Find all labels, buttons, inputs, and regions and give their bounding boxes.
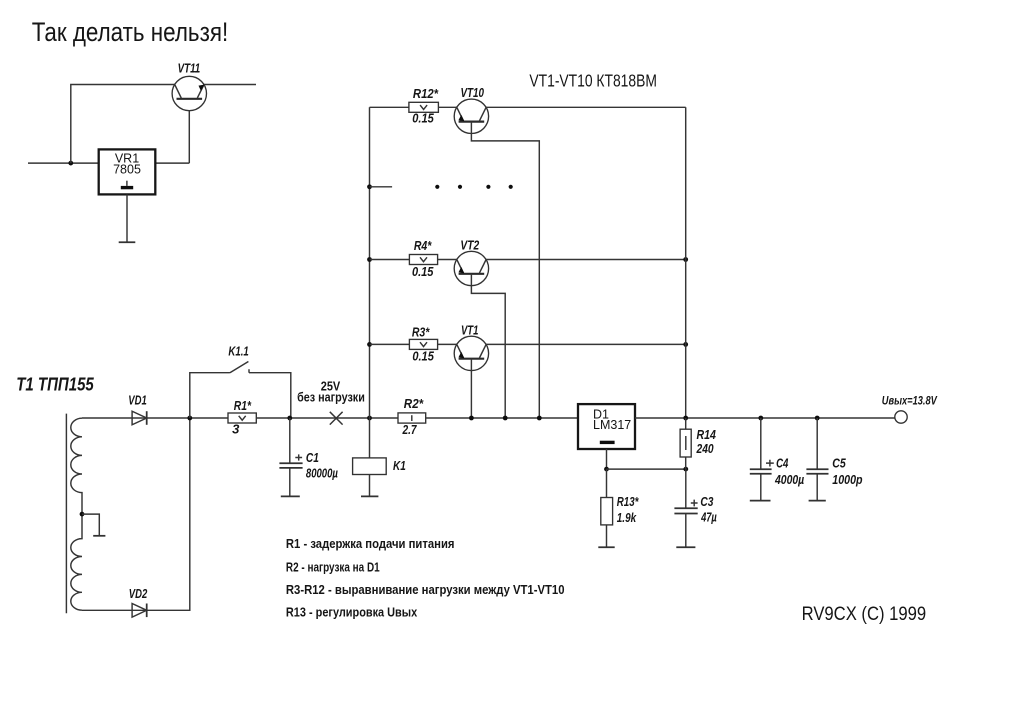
transformer T1 winding — [71, 418, 82, 610]
wire center tap to ground — [82, 514, 99, 536]
svg-text:VT11: VT11 — [178, 61, 201, 76]
svg-text:R14: R14 — [697, 427, 717, 442]
node VT2 base at bus — [503, 416, 508, 421]
transistor VT1 — [454, 323, 488, 371]
ground R13 — [598, 546, 614, 548]
resistor R4 — [409, 238, 437, 279]
wire VT11 emitter output — [204, 84, 256, 86]
ground center tap — [93, 535, 105, 537]
transistor VT10 — [454, 85, 488, 134]
svg-text:VT1: VT1 — [461, 323, 479, 338]
capacitor C3 — [674, 469, 717, 547]
ground C5 — [809, 500, 826, 502]
transformer T1 label — [16, 374, 94, 394]
ground C1 — [281, 495, 300, 497]
diode VD1 — [128, 394, 147, 425]
svg-text:K1: K1 — [393, 458, 406, 473]
svg-text:240: 240 — [696, 441, 714, 456]
svg-text:R1 - задержка подачи питания: R1 - задержка подачи питания — [286, 537, 455, 551]
regulator VR1 — [99, 149, 156, 194]
capacitor C5 — [806, 418, 862, 501]
wire secondary top to R1 — [82, 417, 228, 419]
svg-text:Так делать нельзя!: Так делать нельзя! — [32, 17, 229, 47]
label VT1-VT10 KT818BM — [529, 70, 657, 90]
node C4 tap — [758, 416, 763, 421]
ground K1 — [361, 495, 378, 497]
svg-text:VT1-VT10 КТ818ВМ: VT1-VT10 КТ818ВМ — [529, 70, 657, 90]
svg-text:VD1: VD1 — [128, 394, 147, 408]
ellipsis dots VT3-VT9 — [435, 185, 513, 189]
svg-text:4000µ: 4000µ — [774, 472, 804, 487]
wire VT10 base to main bus — [471, 122, 539, 418]
svg-text:R4*: R4* — [414, 238, 432, 253]
wire R4 to VT2 — [438, 259, 457, 261]
node transformer center tap — [80, 512, 85, 517]
svg-text:R13 - регулировка Uвых: R13 - регулировка Uвых — [286, 606, 417, 620]
wire ellipsis stub — [370, 186, 393, 188]
wire VT10 collector to right rail — [486, 106, 686, 108]
node VT1 row left — [367, 342, 372, 347]
test point X mark — [330, 412, 343, 425]
transistor VT11 — [172, 61, 206, 111]
wire VT2 base to main bus — [471, 274, 505, 418]
resistor R1 — [228, 398, 256, 437]
resistor R14 — [680, 418, 716, 469]
wire input to VR1 — [28, 162, 99, 164]
capacitor C4 — [750, 418, 805, 501]
svg-text:K1.1: K1.1 — [228, 343, 248, 358]
wire VT1 base to main bus — [470, 359, 472, 418]
svg-text:C1: C1 — [306, 450, 319, 465]
svg-text:C4: C4 — [776, 455, 789, 470]
wire VT2 collector to right rail — [486, 259, 686, 261]
wire R1 to R2 — [256, 417, 398, 419]
node VT1 base at bus — [469, 416, 474, 421]
ground C3 — [676, 546, 695, 548]
svg-text:R12*: R12* — [413, 86, 439, 101]
output terminal — [895, 411, 907, 423]
svg-text:R3-R12 - выравнивание нагрузки: R3-R12 - выравнивание нагрузки между VT1… — [286, 583, 565, 597]
diode VD2 — [129, 587, 148, 617]
wire VT1 collector to right rail — [486, 343, 686, 345]
resistor R2 — [398, 396, 426, 437]
wire R12 to VT10 — [438, 106, 456, 108]
notes list — [286, 537, 565, 619]
ground C4 — [750, 500, 771, 502]
switch contact K1.1 — [190, 343, 291, 418]
wire main bus R2 to D1 — [426, 417, 578, 419]
svg-text:0.15: 0.15 — [412, 349, 434, 364]
svg-text:80000µ: 80000µ — [306, 466, 338, 481]
svg-text:47µ: 47µ — [700, 510, 717, 525]
svg-text:R1*: R1* — [234, 398, 252, 413]
node VT1 row right rail — [683, 342, 688, 347]
svg-text:3: 3 — [232, 421, 240, 436]
wire adj row — [607, 468, 686, 470]
title "Так делать нельзя!" — [32, 17, 229, 47]
wire secondary bottom through VD2 — [82, 418, 190, 610]
wire VT2 row to R4 — [370, 259, 410, 261]
svg-text:LM317: LM317 — [593, 418, 631, 432]
wire VT1 row to R3 — [370, 343, 410, 345]
svg-text:Uвых=13.8V: Uвых=13.8V — [882, 396, 938, 408]
node left rail bottom — [367, 416, 372, 421]
node VT2 row left — [367, 257, 372, 262]
node junction input — [68, 161, 73, 166]
signature RV9CX — [802, 604, 927, 625]
relay coil K1 — [353, 418, 406, 496]
label Uvyh — [882, 396, 938, 408]
svg-text:C3: C3 — [700, 494, 714, 509]
svg-text:без нагрузки: без нагрузки — [297, 389, 365, 404]
svg-text:R13*: R13* — [617, 494, 639, 509]
label 25V без нагрузки — [297, 378, 365, 404]
wire right rail — [685, 107, 687, 418]
svg-text:1.9k: 1.9k — [617, 510, 637, 525]
svg-text:RV9CX (C) 1999: RV9CX (C) 1999 — [802, 604, 927, 625]
wire top row to R12 — [370, 106, 409, 108]
node after R1 — [287, 416, 292, 421]
wire VR1 out to VT11 base — [155, 99, 189, 163]
wire R3 to VT1 — [438, 343, 457, 345]
resistor R3 — [409, 324, 437, 363]
wire up from junction to VT11 collector — [71, 85, 175, 164]
resistor R13 — [601, 469, 639, 547]
node C5 tap — [815, 416, 820, 421]
svg-text:VT2: VT2 — [460, 238, 479, 253]
svg-text:R2*: R2* — [404, 396, 424, 411]
node R14 bottom junction — [683, 467, 688, 472]
wire D1 out to output — [635, 417, 895, 419]
svg-text:C5: C5 — [832, 455, 846, 470]
svg-text:0.15: 0.15 — [412, 264, 434, 279]
node adj junction — [604, 467, 609, 472]
node rectifier junction — [187, 416, 192, 421]
svg-text:0.15: 0.15 — [412, 110, 434, 125]
svg-text:T1 ТПП155: T1 ТПП155 — [16, 374, 94, 394]
svg-text:1000p: 1000p — [832, 472, 862, 487]
svg-text:VT10: VT10 — [460, 85, 484, 100]
svg-text:R3*: R3* — [412, 324, 430, 339]
resistor R12 — [409, 86, 439, 125]
regulator D1 LM317 — [578, 404, 635, 449]
transformer T1 core — [65, 414, 67, 614]
wire VR1 ground lead — [126, 194, 128, 242]
node R14 top — [683, 416, 688, 421]
svg-text:2.7: 2.7 — [402, 422, 417, 437]
node VT2 row right rail — [683, 257, 688, 262]
transistor VT2 — [454, 238, 488, 286]
svg-text:7805: 7805 — [113, 162, 141, 176]
node VT10 base at bus — [537, 416, 542, 421]
node ellipsis row on left rail — [367, 184, 372, 189]
capacitor C1 — [279, 418, 338, 496]
wire D1 adj lead — [606, 449, 608, 469]
svg-text:R2 - нагрузка на D1: R2 - нагрузка на D1 — [286, 561, 380, 575]
ground VR1 — [119, 241, 136, 243]
wire left rail — [369, 107, 371, 418]
svg-text:VD2: VD2 — [129, 587, 148, 601]
